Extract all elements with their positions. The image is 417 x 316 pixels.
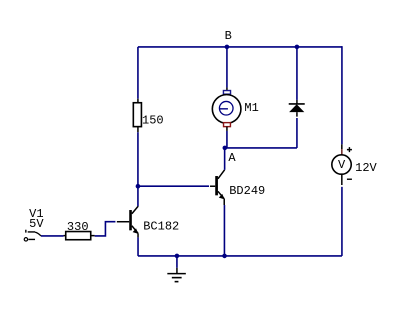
wire top rail node B bbox=[138, 46, 342, 48]
diode D1 cathode bar bbox=[289, 103, 305, 105]
svg-text:A: A bbox=[228, 151, 236, 165]
wire BD249 emitter down to bottom rail bbox=[223, 205, 225, 256]
junction dot BD249 emitter bbox=[222, 254, 227, 259]
wire BC182 collector to node bbox=[137, 186, 139, 206]
wire diode branch from rail down bbox=[296, 47, 298, 100]
diode cathode pin lead bbox=[296, 100, 298, 104]
wire BC182 emitter to bottom rail bbox=[137, 237, 139, 256]
svg-text:BD249: BD249 bbox=[229, 184, 265, 198]
wire R150 bottom to node bbox=[137, 132, 139, 186]
resistor 330 right pin lead bbox=[91, 235, 95, 237]
transistor Q BD249 bbox=[215, 170, 224, 205]
12V source bottom pin lead bbox=[341, 174, 343, 185]
motor M1 top terminal bbox=[223, 91, 230, 95]
svg-text:BC182: BC182 bbox=[143, 220, 179, 234]
svg-text:5V: 5V bbox=[29, 217, 44, 231]
wire motor to node A line bbox=[226, 131, 228, 148]
wire BD249 collector up to node A bbox=[224, 148, 226, 170]
wire V1 to 330 bbox=[41, 235, 64, 237]
wire 12V source to bottom rail bbox=[341, 187, 343, 256]
BD249 base pin lead bbox=[210, 185, 215, 187]
resistor 330 left pin lead bbox=[64, 235, 66, 237]
motor M1 bottom terminal bbox=[224, 123, 231, 127]
motor M1 body bbox=[212, 95, 241, 124]
BC182 base pin lead bbox=[117, 221, 129, 223]
12V source minus sign bbox=[347, 178, 352, 180]
wire ground drop bbox=[176, 256, 178, 268]
transistor Q BC182 bbox=[129, 206, 138, 237]
svg-text:330: 330 bbox=[67, 220, 89, 234]
junction dot ground tap bbox=[175, 254, 180, 259]
wire node A to diode anode bbox=[224, 147, 297, 149]
12V source top pin lead bbox=[341, 144, 343, 149]
svg-text:M1: M1 bbox=[244, 101, 258, 115]
resistor 150 top pin lead bbox=[137, 99, 139, 103]
resistor 150 body bbox=[133, 103, 141, 127]
ground symbol bbox=[167, 268, 186, 282]
motor bottom pin lead bbox=[226, 127, 228, 131]
12V source plus terminal lead bbox=[341, 149, 343, 155]
svg-text:12V: 12V bbox=[355, 161, 377, 175]
12V source plus sign bbox=[347, 147, 352, 152]
resistor 150 bottom pin lead bbox=[137, 127, 139, 133]
node A junction dot bbox=[223, 146, 228, 151]
junction dot top of diode branch bbox=[295, 45, 300, 50]
svg-text:V: V bbox=[338, 158, 346, 172]
input source V1 symbol bbox=[24, 230, 41, 241]
junction dot node R150/BC182-collector/BD249-base bbox=[136, 184, 141, 189]
voltage source V 12V body bbox=[332, 155, 351, 174]
wire motor branch from rail to motor bbox=[226, 47, 228, 88]
wire diode anode down to node A line bbox=[296, 118, 298, 148]
svg-text:150: 150 bbox=[142, 113, 164, 127]
wire left branch from rail to R150 bbox=[137, 47, 139, 99]
motor top pin lead bbox=[226, 88, 228, 91]
wire bottom rail bbox=[138, 255, 342, 257]
wire node to BD249 base bbox=[138, 185, 209, 187]
motor M1 inner symbol bbox=[219, 101, 233, 115]
diode anode pin lead bbox=[296, 112, 298, 117]
wire 330 to BC182 base step bbox=[95, 222, 116, 236]
wire right branch rail to 12V source bbox=[341, 46, 343, 144]
resistor 330 body bbox=[66, 232, 91, 240]
svg-text:B: B bbox=[225, 29, 232, 43]
diode D1 triangle bbox=[289, 104, 304, 112]
node B junction dot bbox=[225, 45, 230, 50]
